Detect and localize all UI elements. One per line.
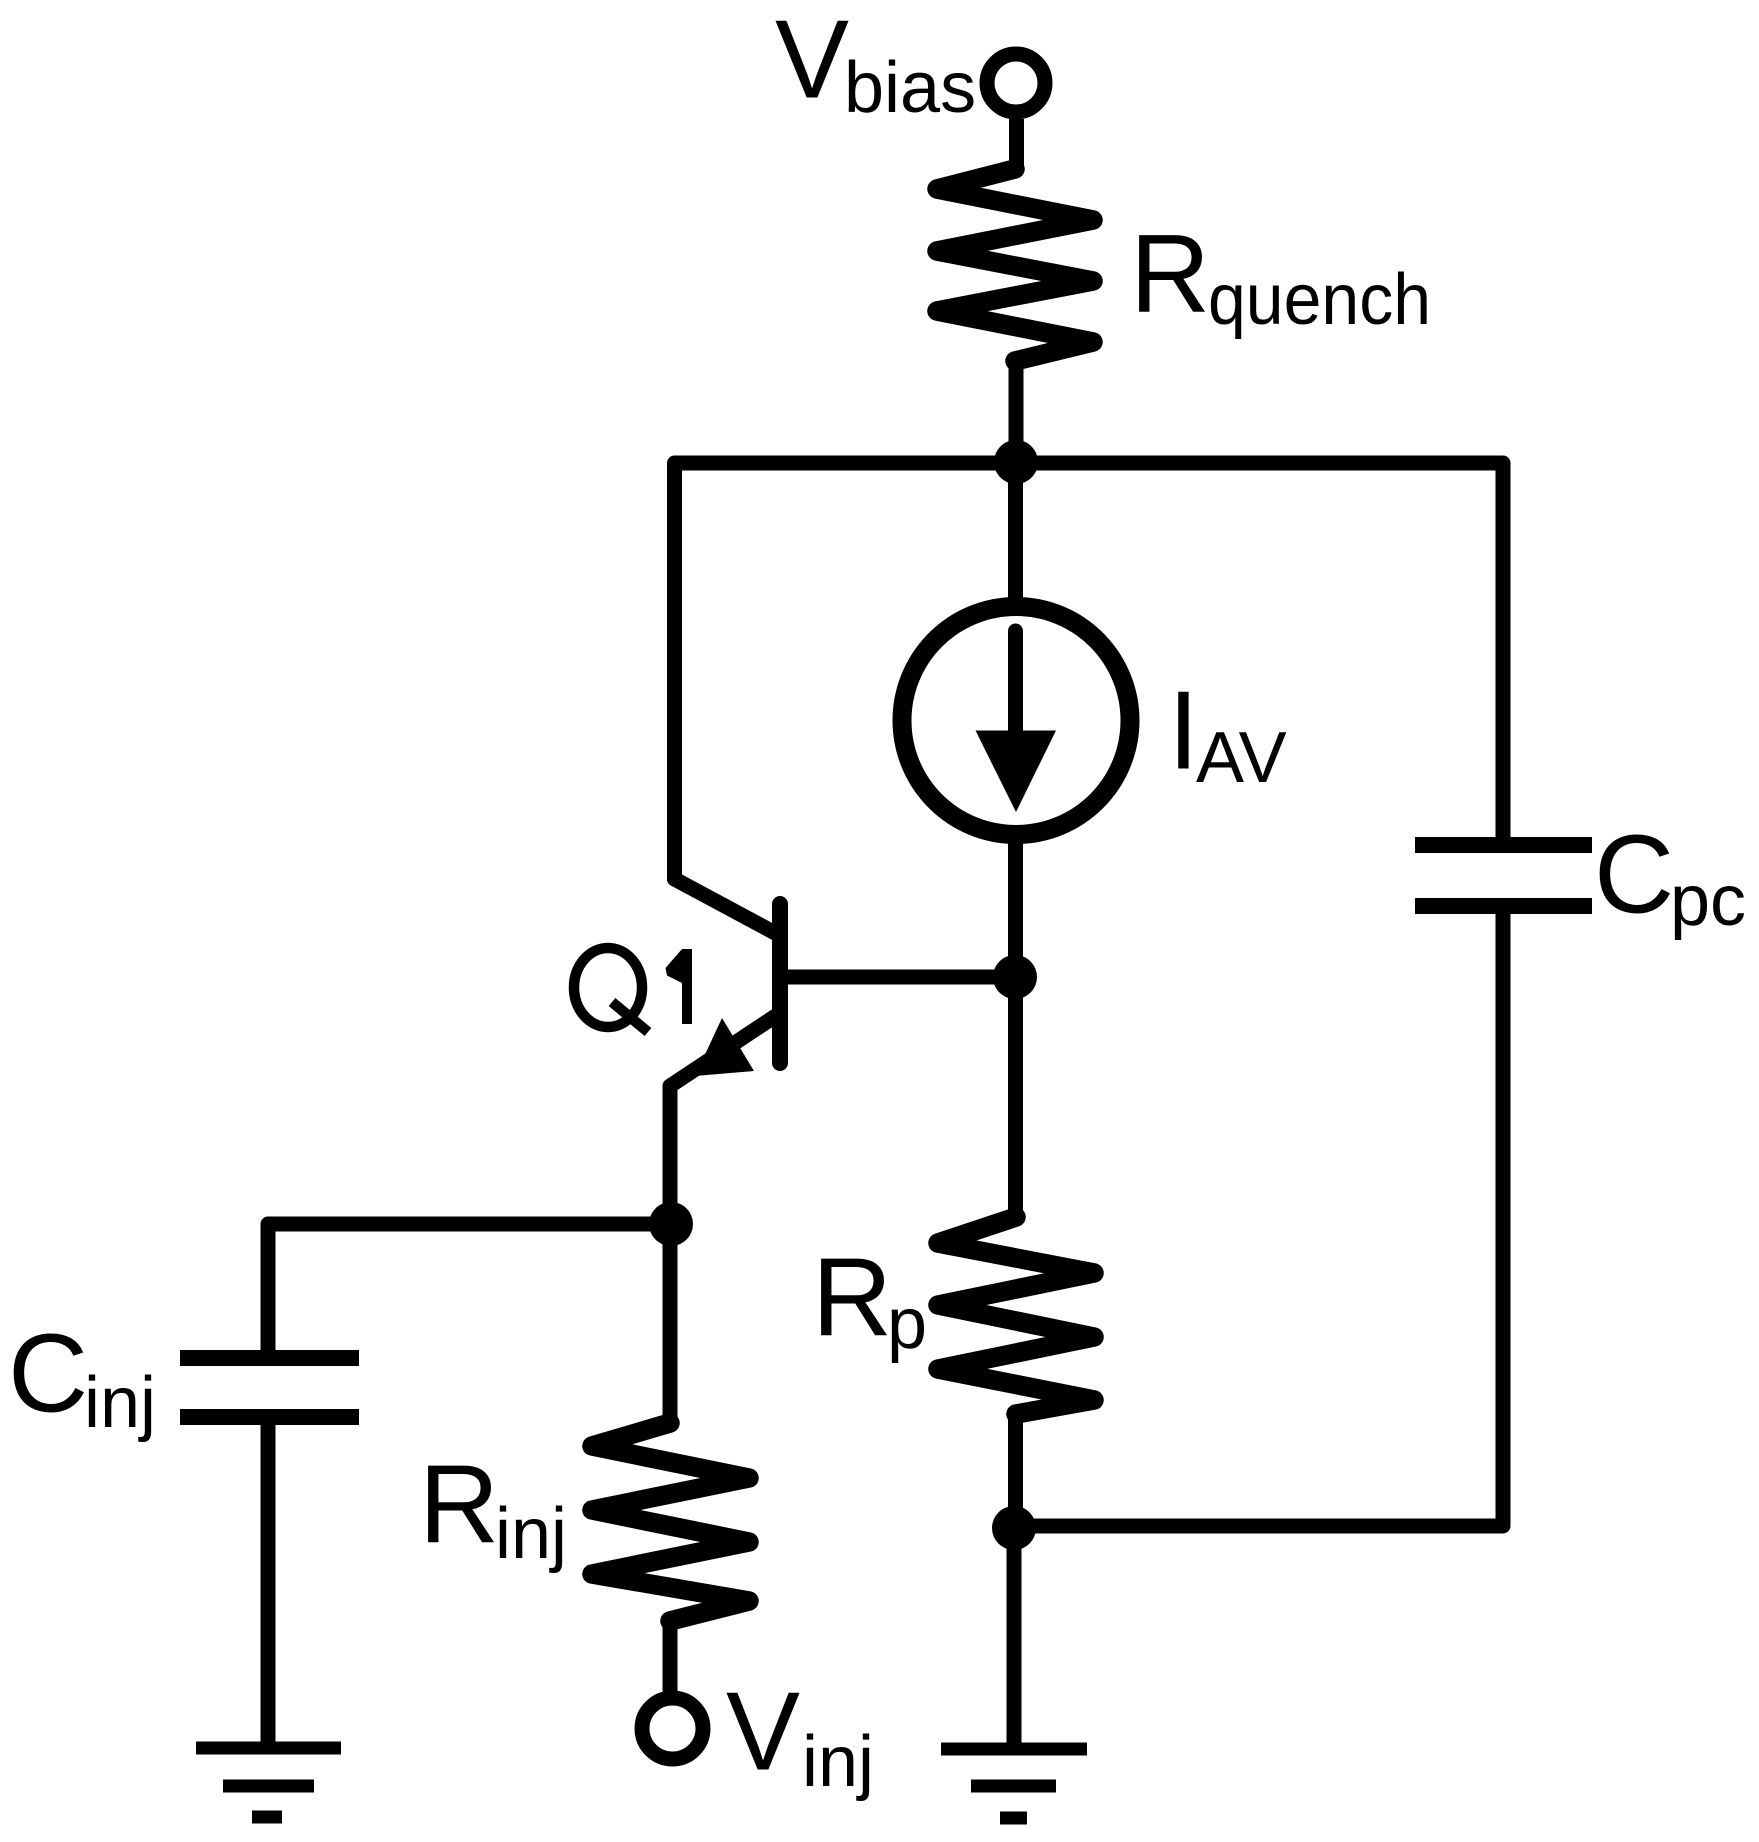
transistor Q1 xyxy=(670,875,780,1230)
base bar xyxy=(772,904,788,1063)
terminal Vinj xyxy=(642,1698,703,1759)
collector diagonal xyxy=(675,875,778,934)
label IAV xyxy=(1168,669,1287,799)
terminal Vbias xyxy=(987,54,1045,112)
wire bottom rail node D to Cpc xyxy=(1014,914,1503,1526)
svg-text:AV: AV xyxy=(1196,718,1287,798)
wire Cinj to ground xyxy=(261,1417,276,1748)
svg-text:bias: bias xyxy=(844,48,976,128)
current source IAV xyxy=(902,607,1130,835)
emitter arrow (PNP) xyxy=(695,1018,754,1076)
resistor Rinj xyxy=(592,1423,749,1621)
resistor Rp xyxy=(938,1217,1094,1414)
svg-text:pc: pc xyxy=(1670,861,1746,941)
label Vbias xyxy=(775,0,976,128)
svg-text:quench: quench xyxy=(1208,260,1431,340)
wire Rinj to Vinj terminal xyxy=(663,1619,678,1694)
svg-text:p: p xyxy=(887,1284,927,1364)
node B junction dot xyxy=(993,955,1037,999)
label Cpc xyxy=(1594,813,1746,942)
emitter diagonal and lead xyxy=(670,1015,777,1230)
node D junction dot xyxy=(992,1506,1036,1550)
wire node B to Rp xyxy=(1008,977,1023,1222)
svg-text:R: R xyxy=(812,1236,892,1360)
label Vinj xyxy=(726,1670,874,1803)
svg-text:inj: inj xyxy=(84,1363,156,1443)
wire Vbias lead xyxy=(1009,119,1024,172)
svg-text:C: C xyxy=(8,1312,88,1436)
label Cinj xyxy=(8,1312,156,1444)
svg-text:C: C xyxy=(1594,813,1674,937)
wire node A to current source xyxy=(1008,462,1023,612)
wire node C to Rinj xyxy=(663,1224,678,1428)
svg-text:I: I xyxy=(1168,669,1199,793)
wire node D to ground (middle) xyxy=(1007,1528,1022,1749)
node A junction dot xyxy=(994,440,1038,484)
capacitor Cinj xyxy=(180,1358,359,1417)
label Rquench xyxy=(1130,212,1431,340)
svg-text:R: R xyxy=(419,1443,499,1567)
ground (left) xyxy=(196,1748,341,1817)
svg-text:V: V xyxy=(775,0,849,122)
label Rinj xyxy=(419,1443,567,1575)
label Q1 xyxy=(574,948,692,1032)
resistor Rquench xyxy=(937,169,1093,361)
svg-text:inj: inj xyxy=(495,1494,567,1574)
wire Rp to node D xyxy=(1008,1412,1023,1533)
svg-text:R: R xyxy=(1130,212,1210,336)
svg-text:V: V xyxy=(726,1670,800,1794)
wire node C to Cinj xyxy=(268,1224,671,1350)
wire Rquench to node A xyxy=(1009,359,1024,470)
wire current source to node B xyxy=(1008,834,1023,985)
node C junction dot xyxy=(649,1202,693,1246)
svg-text:inj: inj xyxy=(802,1722,874,1802)
label Rp xyxy=(812,1236,927,1365)
wire base of Q1 to node B xyxy=(780,970,1015,985)
wire top rail with left branch and Cpc branch xyxy=(675,463,1504,881)
ground (middle) xyxy=(941,1749,1087,1818)
capacitor Cpc xyxy=(1415,845,1592,906)
